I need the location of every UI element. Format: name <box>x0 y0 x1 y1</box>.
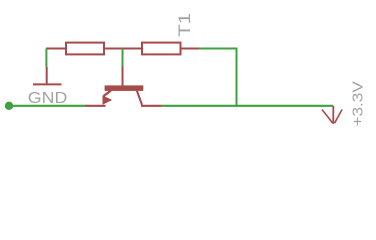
svg-text:+3.3V: +3.3V <box>349 81 366 126</box>
svg-text:T1: T1 <box>175 13 194 37</box>
svg-text:GND: GND <box>28 90 68 107</box>
